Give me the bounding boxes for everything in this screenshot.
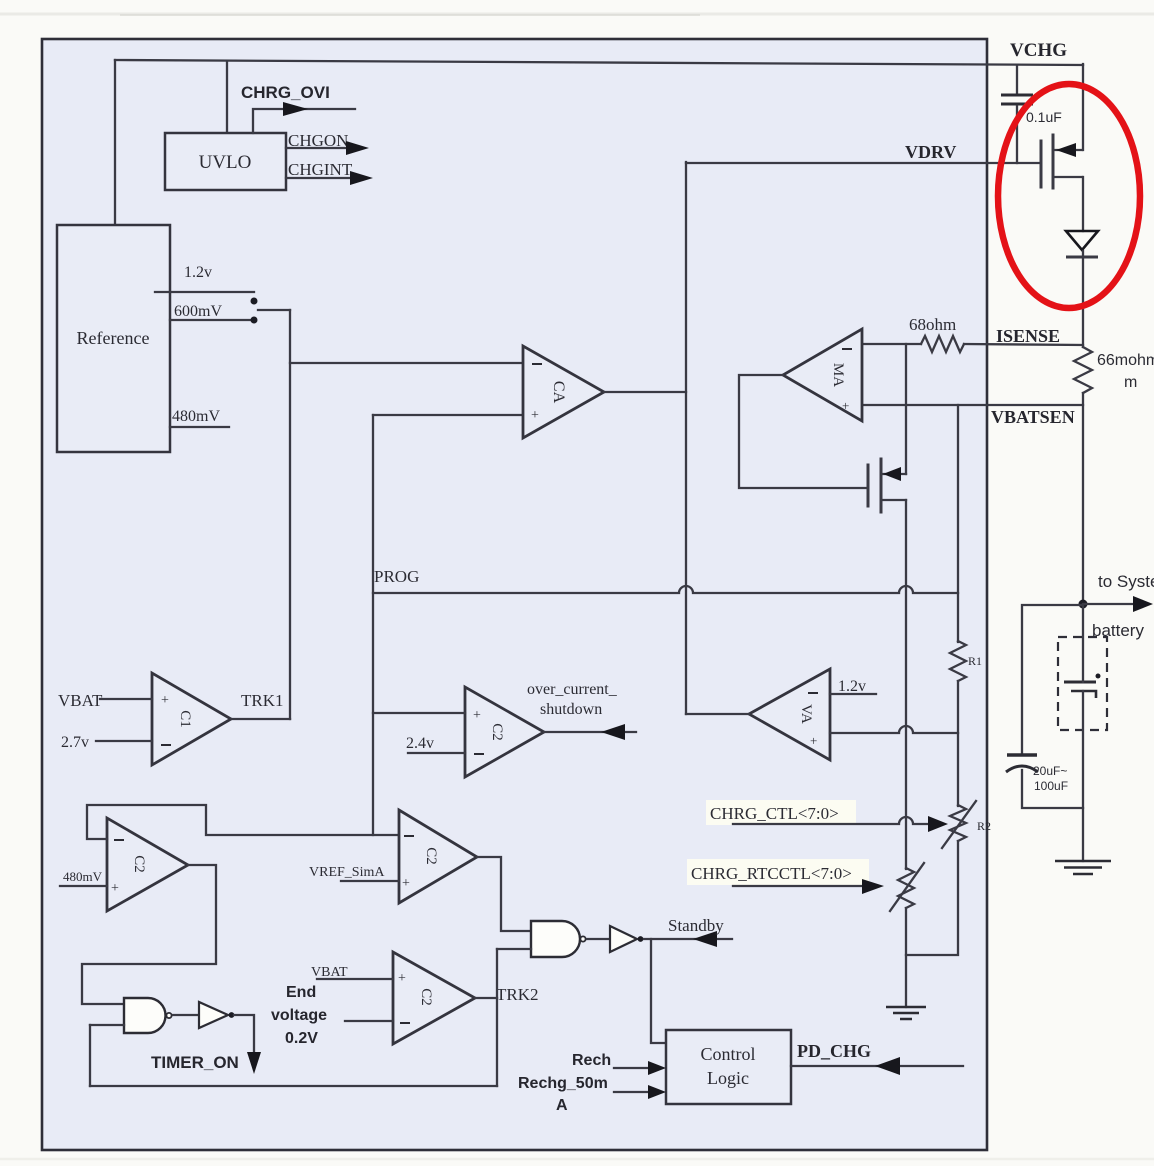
arrow CHRG_OVI	[283, 102, 308, 116]
resistor R1	[950, 641, 966, 681]
resistor R2 (programmable)	[950, 805, 966, 841]
wire U5 lower input	[497, 948, 531, 950]
ground RTC chain	[886, 1007, 926, 1019]
svg-text:to System: to System	[1098, 572, 1154, 591]
wire main battery rail	[1082, 605, 1084, 861]
svg-text:TIMER_ON: TIMER_ON	[151, 1053, 239, 1072]
block Reference	[57, 225, 170, 452]
wire VBAT to C1+	[100, 698, 152, 700]
wire VA+ to sense divider with hop	[830, 726, 958, 733]
wire U3 lower input	[90, 1024, 124, 1026]
op-amp VA	[749, 669, 830, 760]
wire 1.2v output	[155, 291, 254, 293]
svg-text:ISENSE: ISENSE	[996, 326, 1060, 346]
wire PROG horizontal with hops	[373, 586, 958, 593]
wire Q2 source vertical down	[905, 500, 907, 869]
svg-text:600mV: 600mV	[174, 303, 222, 320]
wire CHRG_RTCCTL line	[733, 885, 864, 887]
wire TRK2- stub	[345, 1020, 393, 1022]
nand U5 output bubble	[580, 936, 585, 941]
capacitor 0.1uF lead bottom	[1016, 106, 1018, 163]
capacitor 20uF-100uF curved plate	[1006, 766, 1038, 772]
wire PD_CHG line	[791, 1065, 963, 1067]
nand U3 output bubble	[166, 1013, 171, 1018]
wire battery branch top	[1022, 605, 1083, 753]
capacitor 20uF-100uF top plate	[1007, 753, 1037, 757]
wire battery branch bottom	[1022, 770, 1083, 808]
wire CHRG_CTL to R2 with hop	[733, 817, 930, 824]
arrow over_current_shutdown	[601, 724, 625, 740]
ground battery rail	[1055, 861, 1111, 874]
svg-text:0.2V: 0.2V	[285, 1030, 318, 1047]
wire TRK2 output	[475, 997, 497, 999]
op-amp OSC lower-left	[107, 818, 188, 911]
wire 68ohm to ISENSE pin	[964, 344, 1083, 345]
wire diode to ISENSE	[1082, 251, 1084, 347]
wire Q1 drain to diode	[1082, 177, 1084, 231]
IC boundary box	[42, 39, 987, 1150]
node CHRG_RTCCTL<7:0> label	[687, 859, 869, 885]
junction dot inverter output	[229, 1012, 235, 1018]
svg-text:A: A	[556, 1097, 568, 1114]
wire U3 lower input vertical	[89, 1025, 91, 1086]
svg-text:20uF~: 20uF~	[1033, 764, 1067, 778]
transistor Q1 source arrow	[1056, 143, 1076, 157]
diode D1 cathode bar	[1066, 256, 1098, 259]
svg-text:0.1uF: 0.1uF	[1026, 109, 1062, 125]
arrow CHRG_CTL	[928, 816, 948, 832]
svg-text:+: +	[531, 408, 539, 423]
wire left vertical from top rail to Reference	[114, 60, 116, 225]
svg-text:+: +	[842, 398, 849, 413]
wire VDRV to pass FET gate	[686, 162, 1040, 164]
svg-text:+: +	[161, 693, 169, 708]
scan artifact streak bottom	[0, 1158, 1154, 1161]
op-amp VREF_SimA comparator	[399, 810, 477, 903]
wire MA- to 68ohm	[862, 343, 921, 345]
svg-text:CHGINT: CHGINT	[288, 160, 353, 179]
transistor Q2 gate bar	[867, 465, 870, 506]
op-amp C1	[152, 673, 231, 765]
wire R1 to R2	[957, 681, 959, 806]
battery cell plates	[1064, 681, 1096, 684]
wire CHGON	[286, 147, 348, 149]
svg-text:MA: MA	[830, 363, 846, 387]
red ellipse annotation	[998, 84, 1140, 308]
wire U5 to inverter	[587, 938, 610, 940]
svg-text:CHRG_RTCCTL<7:0>: CHRG_RTCCTL<7:0>	[691, 864, 852, 883]
svg-text:m: m	[1124, 374, 1137, 391]
arrow CHRG_RTCCTL	[862, 879, 884, 894]
wire standby to control logic	[651, 939, 666, 1043]
svg-text:End: End	[286, 984, 316, 1001]
svg-text:100uF: 100uF	[1034, 779, 1068, 793]
wire TIMER_ON drop	[234, 1015, 254, 1053]
svg-text:CHRG_CTL<7:0>: CHRG_CTL<7:0>	[710, 804, 839, 823]
wire to System arrow line	[1083, 603, 1136, 605]
wire Rech arrow	[614, 1067, 650, 1069]
wire OSC- feedback loop to PROG	[87, 805, 399, 839]
block UVLO	[165, 133, 286, 190]
svg-text:Standby: Standby	[668, 916, 724, 935]
svg-text:CHRG_OVI: CHRG_OVI	[241, 83, 330, 102]
svg-text:TRK2: TRK2	[496, 985, 539, 1004]
wire CA non-inverting input	[373, 414, 523, 416]
svg-text:UVLO: UVLO	[199, 152, 252, 173]
resistor 66mohm	[1074, 347, 1092, 393]
wire VREF_SimA stub	[341, 880, 399, 882]
svg-text:480mV: 480mV	[63, 869, 103, 884]
svg-text:VBAT: VBAT	[311, 965, 348, 980]
wire VBATSEN sense vertical	[957, 405, 959, 642]
wire CHRG_OVI stub	[253, 109, 355, 133]
svg-text:TRK1: TRK1	[241, 691, 284, 710]
capacitor 0.1uF plates	[1001, 95, 1033, 104]
inverter U6	[610, 926, 637, 952]
junction dot U6 output	[638, 936, 644, 942]
wire switch lever	[258, 309, 290, 311]
transistor Q2 drain lead	[882, 473, 906, 475]
svg-text:C2: C2	[489, 723, 505, 741]
wire VBATSEN / MA+ line	[862, 404, 1083, 406]
svg-text:over_current_: over_current_	[527, 681, 618, 698]
transistor Q2 source lead	[882, 499, 906, 501]
junction dot battery node	[1079, 600, 1088, 609]
wire C2+ from PROG	[373, 712, 465, 714]
wire TRK2 node vertical	[496, 949, 498, 1086]
svg-text:R2: R2	[977, 819, 991, 833]
svg-text:+: +	[398, 971, 406, 986]
svg-text:1.2v: 1.2v	[184, 264, 212, 281]
svg-text:2.7v: 2.7v	[61, 734, 89, 751]
scan artifact streak top	[0, 13, 1154, 16]
wire Rechg_50mA arrow	[614, 1091, 650, 1093]
wire 2.7v to C1-	[96, 740, 152, 742]
svg-text:Reference: Reference	[77, 328, 150, 348]
svg-text:VCHG: VCHG	[1010, 40, 1067, 61]
svg-text:VBATSEN: VBATSEN	[991, 407, 1075, 427]
nand gate U5 body	[531, 921, 580, 957]
arrow CHGON	[346, 141, 369, 155]
svg-text:battery: battery	[1092, 621, 1144, 640]
svg-text:480mV: 480mV	[172, 408, 220, 425]
wire VA output	[686, 713, 749, 715]
wire TRK1/600mV vertical	[289, 310, 291, 719]
svg-text:Rech: Rech	[572, 1052, 611, 1069]
wire 2.4v stub	[408, 752, 465, 754]
wire drive-node vertical (CA/VA output to VDRV)	[685, 162, 687, 714]
junction dot 1.2v	[251, 298, 258, 305]
inverter U4	[199, 1002, 228, 1028]
transistor Q1 drain lead	[1054, 176, 1082, 178]
svg-text:PD_CHG: PD_CHG	[797, 1041, 871, 1061]
wire RTC to ground	[905, 908, 907, 1007]
op-amp CA	[523, 346, 604, 438]
wire U3 to inverter	[173, 1014, 199, 1016]
wire OSC output loop	[82, 865, 216, 1004]
transistor Q1 source lead	[1054, 149, 1082, 151]
svg-text:shutdown: shutdown	[540, 701, 602, 718]
transistor Q1 channel bar	[1052, 135, 1055, 188]
svg-text:+: +	[402, 876, 410, 891]
wire 480mV stub	[170, 426, 229, 428]
transistor Q2 drain arrow	[883, 467, 901, 481]
op-amp MA	[783, 329, 862, 421]
svg-text:+: +	[473, 708, 481, 723]
node CHRG_CTL<7:0> label	[706, 800, 856, 825]
wire CHGINT	[286, 177, 352, 179]
wire bottom feedback rail	[90, 1085, 497, 1087]
wire R2 down to RTC chain	[906, 841, 958, 955]
wire C1 output to TRK1 node	[231, 718, 290, 720]
junction dot 600mV	[251, 317, 258, 324]
svg-text:2.4v: 2.4v	[406, 735, 434, 752]
op-amp C2 over-current	[465, 687, 544, 777]
arrow PD_CHG	[875, 1057, 900, 1075]
nand gate U3 lower-left body	[124, 998, 166, 1033]
svg-text:Logic: Logic	[707, 1068, 749, 1088]
svg-text:voltage: voltage	[271, 1007, 327, 1024]
svg-text:R1: R1	[968, 654, 982, 668]
diode D1 triangle	[1066, 231, 1098, 250]
svg-text:1.2v: 1.2v	[838, 678, 866, 695]
wire Standby line	[644, 938, 732, 940]
arrow to System	[1133, 596, 1153, 612]
svg-text:+: +	[810, 733, 817, 748]
battery cell dashed outline	[1058, 637, 1107, 730]
arrow TIMER_ON down	[247, 1052, 261, 1074]
op-amp TRK2 comparator	[393, 952, 475, 1044]
svg-text:66mohm: 66mohm	[1097, 352, 1154, 369]
svg-text:Rechg_50m: Rechg_50m	[518, 1075, 608, 1092]
wire 600mV output	[170, 319, 254, 321]
wire over-current output	[544, 731, 636, 733]
wire PROG vertical	[372, 415, 374, 835]
svg-text:VBAT: VBAT	[58, 691, 103, 710]
svg-text:+: +	[111, 881, 119, 896]
svg-text:Control: Control	[700, 1044, 755, 1064]
capacitor 0.1uF lead top	[1016, 65, 1018, 93]
arrow CHGINT	[350, 171, 373, 185]
wire VA- 1.2v stub	[830, 693, 876, 695]
wire VCHG rail to Q1 source	[1082, 64, 1084, 150]
resistor 68ohm	[921, 336, 964, 352]
wire 66mohm to VBATSEN	[1082, 393, 1084, 605]
transistor Q1 pass PMOS gate bar	[1040, 141, 1043, 187]
svg-text:VA: VA	[798, 704, 814, 724]
svg-text:C1: C1	[177, 710, 193, 728]
svg-text:CA: CA	[550, 381, 567, 404]
svg-text:68ohm: 68ohm	[909, 315, 956, 334]
wire Q2 drain to MA- node	[905, 344, 907, 474]
wire top rail from left vertical to VCHG corner	[115, 60, 1083, 65]
svg-text:C2: C2	[423, 847, 439, 865]
wire CA inverting input	[290, 362, 523, 364]
svg-text:C2: C2	[418, 988, 434, 1006]
block Control Logic	[666, 1030, 791, 1104]
wire CA output	[604, 391, 686, 393]
wire MA output loop to Q2 gate	[739, 375, 866, 488]
svg-text:VDRV: VDRV	[905, 142, 956, 162]
wire UVLO supply stub	[226, 61, 228, 133]
svg-text:PROG: PROG	[374, 567, 419, 586]
arrow Standby	[693, 931, 717, 947]
transistor Q2 channel bar	[880, 459, 883, 512]
svg-text:VREF_SimA: VREF_SimA	[309, 865, 385, 880]
svg-text:C2: C2	[131, 855, 147, 873]
wire VREF comparator output	[477, 857, 531, 931]
wire TRK2+ stub	[317, 978, 393, 980]
resistor RTC (programmable)	[898, 868, 914, 908]
wire OSC+ stub	[60, 885, 107, 887]
